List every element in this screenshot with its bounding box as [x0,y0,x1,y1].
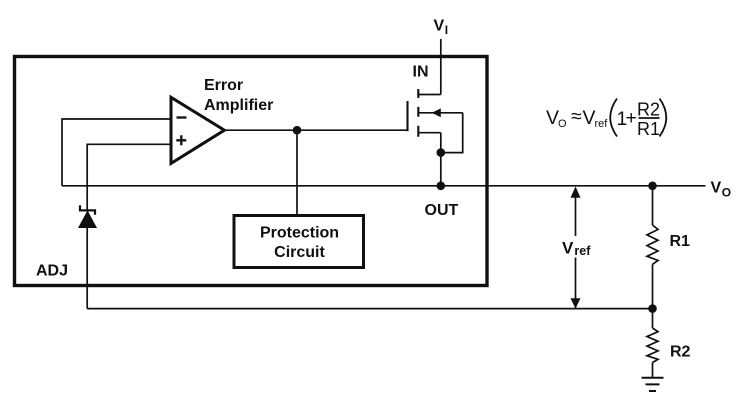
transistor Q1 gate bar [406,101,408,131]
ground [642,378,664,391]
svg-text:+: + [626,107,637,129]
formula left paren [610,99,617,137]
svg-text:R1: R1 [670,233,691,250]
node R1-R2 junction [648,304,657,313]
svg-text:IN: IN [413,64,429,81]
wire R2 top [652,309,654,328]
wire R2 to ground [652,363,654,378]
op-amp U1 [171,97,224,163]
wire op-amp output to gate [224,129,407,131]
svg-text:≈: ≈ [571,106,582,128]
wire Vref measure line [575,188,577,308]
svg-text:R2: R2 [637,100,660,120]
transistor Q1 channel segments [417,89,419,137]
formula VO = Vref(1+R2/R1) [546,99,666,140]
svg-text:ADJ: ADJ [36,263,68,280]
wire zener anode to ADJ [86,228,88,309]
formula fraction bar [639,117,660,119]
wire ADJ rail [87,308,652,310]
svg-text:V: V [711,180,722,197]
svg-text:Protection: Protection [260,225,339,242]
wire drain to OUT [440,133,442,186]
resistor R2 [647,328,658,363]
svg-text:Amplifier: Amplifier [204,97,273,114]
svg-text:I: I [445,23,448,37]
wire plus input [87,144,171,210]
node OUT junction [437,182,446,191]
wire VI input [440,39,442,95]
svg-text:R1: R1 [637,119,660,139]
op-amp plus sign [176,135,186,145]
wire to protection circuit [296,130,298,214]
wire R1 bottom [652,264,654,308]
formula right paren [660,99,667,137]
svg-text:OUT: OUT [425,202,459,219]
svg-text:V: V [434,18,445,35]
wire drain stub [418,132,441,134]
svg-text:O: O [558,118,567,130]
svg-text:R2: R2 [670,344,691,361]
IC outer box [15,57,488,286]
resistor R1 [647,225,658,264]
node op-amp output junction [293,126,302,135]
svg-text:V: V [562,238,574,257]
protection circuit box [234,216,364,268]
Vref arrow up [571,187,581,198]
Vref arrow down [571,298,581,308]
svg-text:Error: Error [204,77,243,94]
svg-text:Circuit: Circuit [274,244,325,261]
zener diode D1 bar [80,205,95,215]
op-amp minus sign [177,116,187,118]
wire VO rail [62,185,706,187]
wire minus input [62,119,171,186]
node body-drain junction [437,148,446,157]
wire body loop [441,113,463,153]
svg-text:ref: ref [595,118,609,130]
wire R1 top [652,186,654,225]
svg-text:O: O [722,186,731,200]
svg-text:ref: ref [574,244,591,258]
transistor Q1 body arrow [432,108,441,117]
zener diode D1 triangle [78,210,97,228]
node R1 top junction [648,182,657,191]
wire body stub [418,112,462,114]
wire source stub [418,94,441,96]
